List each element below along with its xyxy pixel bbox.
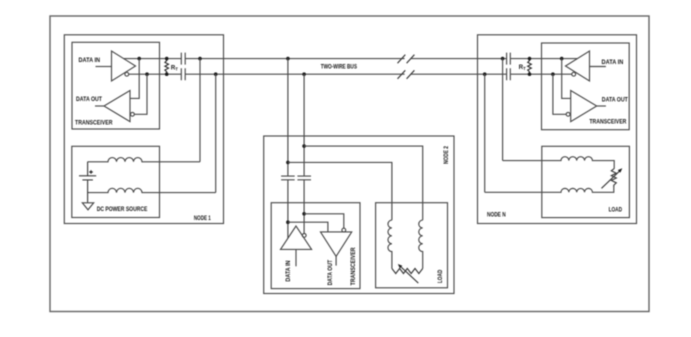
node junction load tap left (node 2) [286,161,290,165]
inverting bubble driver (node 1) [125,72,129,76]
svg-text:DATA OUT: DATA OUT [328,260,334,286]
node junction RT top terminal (node N) [528,57,532,61]
inductor top (node 1) [88,158,200,162]
node junction bottom bus (node N load drop) [483,72,487,76]
inverting bubble driver (node N) [572,72,576,76]
buffer receiver (node 1) [104,91,130,122]
border frame [50,16,649,312]
wire to load right coil (node 2) [304,146,423,220]
wire driver input (node 1) [96,66,112,68]
svg-text:TWO-WIRE BUS: TWO-WIRE BUS [321,64,357,70]
svg-text:DATA IN: DATA IN [79,58,101,64]
wire drop to load bottom (node N) [484,74,486,192]
wire receiver output (node N) [597,105,606,107]
capacitor bottom bus (node N) [507,68,511,80]
svg-text:TRANSCEIVER: TRANSCEIVER [75,120,113,126]
svg-text:DATA OUT: DATA OUT [76,97,102,103]
inverting bubble driver (node 2) [302,234,306,238]
svg-text:LOAD: LOAD [438,269,444,283]
capacitor bottom bus (node 1) [181,68,185,80]
wire right drop (node 2) [303,74,305,233]
bus break marks top wire [398,55,415,64]
svg-text:TRANSCEIVER: TRANSCEIVER [351,247,357,286]
buffer driver (node 2) [281,226,312,249]
wire drop to load top (node N) [502,59,504,161]
variable resistor zigzag (node N) [611,169,616,188]
svg-text:DATA IN: DATA IN [602,60,624,66]
node junction and drop wire to power source plus (node 1) [198,57,202,61]
node junction bottom bus (node 1) [145,72,149,76]
svg-text:NODE 2: NODE 2 [444,145,450,164]
variable resistor arrow (node N) [602,171,620,188]
inverting bubble receiver (node 1) [131,112,135,116]
node junction top bus (node 2 left drop) [286,57,290,61]
wire to receiver inverting input (node N) [553,74,566,114]
capacitor right (node 2) [297,176,311,180]
wire to receiver inverting input (node 2) [304,214,344,228]
node junction RT bottom terminal (node N) [528,72,532,76]
node junction driver left (node 2) [286,220,290,224]
inductor top (node N) [503,157,615,169]
inductor bottom (node N) [485,188,614,192]
node junction top bus (node 1) [137,57,141,61]
buffer driver (node N) [566,51,590,81]
load box (node N) [542,146,630,217]
svg-text:TRANSCEIVER: TRANSCEIVER [589,119,627,125]
resistor RT (node N) [528,59,532,75]
node junction driver right (node 2) [302,212,306,216]
buffer receiver (node N) [571,91,597,122]
node junction top bus (node N) [560,57,564,61]
dc power source box (node 1) [72,146,160,217]
node junction bottom bus (node N) [551,72,555,76]
node junction and drop wire to power source minus (node 1) [214,72,218,76]
node N box [478,35,637,224]
wire receiver output stub (node 2) [335,256,337,265]
ground (node 1) [82,203,93,210]
svg-text:DC POWER SOURCE: DC POWER SOURCE [97,207,148,213]
svg-text:DATA OUT: DATA OUT [602,98,628,104]
wire top bus [124,58,578,60]
node 1 transceiver box [72,42,160,129]
resistor RT (node 1) [165,59,169,75]
wire bottom bus [129,73,572,75]
wire receiver output (node 1) [95,105,104,107]
wire to receiver noninverting input (node 2) [288,222,328,232]
svg-text:RT: RT [519,65,526,71]
node junction RT bottom terminal (node 1) [165,72,169,76]
wire to load left coil (node 2) [288,162,392,220]
inductor bottom (node 1) [88,188,216,192]
svg-text:DATA IN: DATA IN [286,261,292,282]
node junction load tap right (node 2) [302,144,306,148]
wire to receiver inverting input (node 1) [134,74,147,114]
capacitor top bus (node 1) [181,53,185,65]
buffer receiver (node 2) [321,232,352,257]
buffer driver (node 1) [112,51,136,81]
svg-text:NODE 1: NODE 1 [194,216,211,222]
svg-text:LOAD: LOAD [609,208,623,214]
load box (node 2) [376,203,448,288]
inverting bubble receiver (node 2) [342,228,346,232]
battery (node 1) [79,162,96,203]
wire left drop (node 2) [287,59,289,238]
battery plus sign (node 1) [89,170,93,174]
transceiver box (node N) [542,43,630,130]
node junction RT top terminal (node 1) [165,57,169,61]
capacitor top bus (node N) [507,53,511,65]
inductor left (node 2) [388,220,392,268]
wire to receiver noninverting input (node N) [562,59,571,99]
svg-text:RT: RT [171,65,178,71]
wire to receiver noninverting input (node 1) [130,59,139,99]
wire driver input stub (node 2) [295,249,297,266]
node junction bottom bus (node 2 right drop) [302,72,306,76]
svg-text:NODE N: NODE N [487,213,506,219]
bus break marks bottom wire [398,70,415,79]
variable resistor zigzag (node 2) [392,269,423,274]
inverting bubble receiver (node N) [566,112,570,116]
inductor right (node 2) [419,220,423,268]
node 2 box [264,136,454,294]
variable resistor arrow (node 2) [401,267,418,283]
node 1 box [64,35,223,224]
wire driver input (node N) [590,66,606,68]
transceiver box (node 2) [271,203,360,289]
capacitor left (node 2) [281,176,295,180]
node junction top bus (node N load drop) [501,57,505,61]
